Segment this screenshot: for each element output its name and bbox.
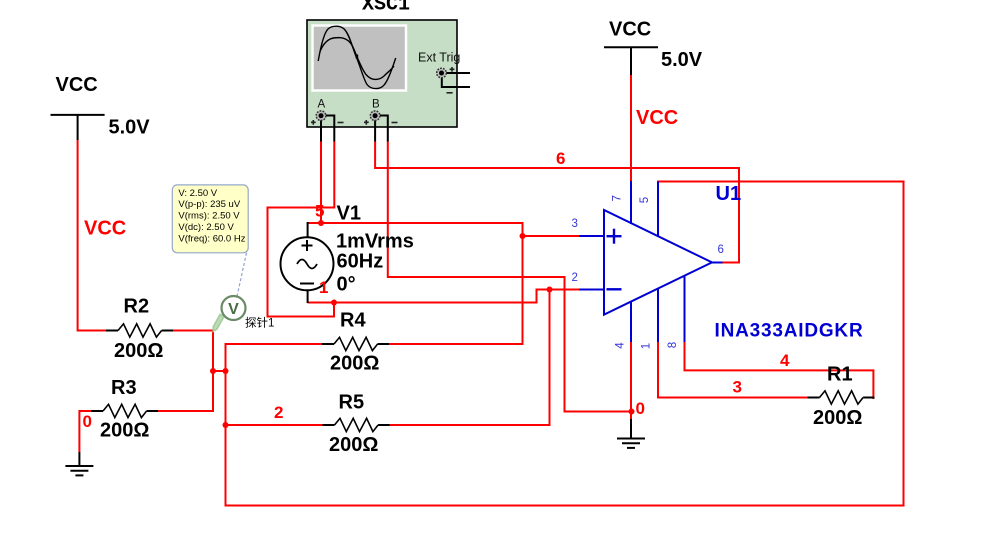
- wire scope B plus stub: [374, 116, 376, 142]
- net label 4: [780, 351, 790, 370]
- wire scope A- loop around V1: [268, 142, 335, 317]
- wire VCC right to pin 7: [630, 75, 632, 182]
- svg-text:V(rms): 2.50 V: V(rms): 2.50 V: [178, 211, 240, 222]
- svg-text:200Ω: 200Ω: [329, 434, 378, 456]
- junction R2R right: [223, 368, 229, 374]
- net label 2: [274, 403, 283, 422]
- pin number 4: [615, 342, 627, 349]
- wire mid rail big loop to pin 5: [226, 182, 904, 506]
- svg-text:3: 3: [572, 218, 578, 230]
- probe circle: [222, 296, 246, 320]
- net label 6: [556, 149, 565, 168]
- resistor R5: [323, 418, 390, 431]
- svg-text:R4: R4: [340, 310, 366, 332]
- wire R5 left branch net 2: [226, 424, 324, 426]
- svg-text:XSC1: XSC1: [362, 0, 410, 17]
- pin number 6: [718, 244, 724, 256]
- V1 value 0 deg: [337, 274, 356, 296]
- svg-text:200Ω: 200Ω: [100, 420, 149, 442]
- net label 1: [319, 278, 328, 297]
- R5 value 200 ohm: [329, 434, 378, 456]
- junction ground right: [629, 409, 635, 415]
- svg-text:0: 0: [636, 399, 645, 418]
- svg-text:V(dc): 2.50 V: V(dc): 2.50 V: [178, 222, 234, 233]
- svg-text:5: 5: [639, 197, 651, 203]
- oscilloscope Ext Trig label: [418, 51, 460, 65]
- wire net 5 V1 plus to R4 right and pin 3: [308, 223, 523, 344]
- svg-text:8: 8: [667, 342, 679, 348]
- wire net 1 V1 minus to pin 2: [308, 290, 580, 303]
- pin number 5: [639, 197, 651, 203]
- svg-text:B: B: [372, 99, 380, 111]
- net label 0 left: [83, 412, 92, 431]
- op-amp pin 2 lead: [579, 289, 604, 291]
- wire scope A plus stub: [320, 116, 322, 142]
- net label 5: [315, 202, 324, 221]
- svg-text:R1: R1: [827, 364, 853, 386]
- ground left: [65, 452, 93, 475]
- svg-text:V1: V1: [337, 203, 361, 225]
- op-amp U1 triangle: [604, 210, 712, 315]
- probe callout line: [237, 253, 247, 297]
- oscilloscope label XSC1: [362, 0, 410, 17]
- svg-text:VCC: VCC: [84, 218, 126, 240]
- R2 reference label: [124, 296, 150, 318]
- wire VCC left rail to R2: [78, 140, 107, 331]
- resistor R1: [808, 391, 875, 404]
- svg-text:3: 3: [733, 378, 742, 397]
- oscilloscope channel A label: [318, 99, 326, 111]
- pin number 7: [612, 195, 624, 201]
- oscilloscope trace A: [318, 26, 396, 88]
- oscilloscope XSC1 body: [307, 20, 457, 127]
- junction A+ net5: [318, 220, 324, 226]
- pin number 1: [641, 343, 653, 349]
- junction R2R left: [210, 368, 216, 374]
- op-amp pin 8 lead: [684, 276, 686, 343]
- op-amp pin 5 lead: [657, 182, 659, 238]
- resistor R4: [322, 337, 389, 350]
- wire ext trig stubs: [442, 73, 470, 87]
- port A connector: [316, 111, 326, 121]
- junction net5 pin3: [520, 233, 526, 239]
- op-amp pin 1 lead: [657, 289, 659, 343]
- R1 reference label: [827, 364, 853, 386]
- pin number 2: [572, 272, 578, 284]
- R4 reference label: [340, 310, 366, 332]
- svg-text:0: 0: [83, 412, 92, 431]
- net VCC right red label: [636, 107, 678, 129]
- R3 reference label: [111, 377, 137, 399]
- R2 value 200 ohm: [114, 340, 163, 362]
- port B connector: [370, 111, 380, 121]
- svg-text:6: 6: [718, 244, 724, 256]
- power VCC right value 5.0V: [661, 49, 703, 71]
- svg-text:60Hz: 60Hz: [337, 251, 384, 273]
- channel B polarity marks: [364, 120, 398, 125]
- wire scope B+ net 6 to pin 6 output: [375, 142, 739, 263]
- svg-text:5: 5: [315, 202, 324, 221]
- svg-text:V: 2.50 V: V: 2.50 V: [178, 188, 217, 199]
- V1 value 1mVrms: [336, 231, 414, 253]
- svg-text:VCC: VCC: [636, 107, 678, 129]
- svg-text:200Ω: 200Ω: [813, 407, 862, 429]
- power VCC right label: [609, 19, 651, 41]
- power VCC left value 5.0V: [109, 117, 151, 139]
- svg-text:2: 2: [572, 272, 578, 284]
- svg-text:V(freq): 60.0 Hz: V(freq): 60.0 Hz: [178, 233, 245, 244]
- svg-text:1: 1: [319, 278, 328, 297]
- R3 value 200 ohm: [100, 420, 149, 442]
- R1 value 200 ohm: [813, 407, 862, 429]
- svg-text:R2: R2: [124, 296, 150, 318]
- svg-text:5.0V: 5.0V: [109, 117, 151, 139]
- wire scope A+ to V1 top (net 5): [320, 142, 322, 224]
- svg-text:7: 7: [612, 195, 624, 201]
- V1 value 60Hz: [337, 251, 384, 273]
- junction net1 pin2: [547, 287, 553, 293]
- svg-text:1: 1: [641, 343, 653, 349]
- op-amp pin 6 lead: [712, 262, 723, 264]
- svg-text:200Ω: 200Ω: [114, 340, 163, 362]
- probe handle: [213, 310, 230, 332]
- wire scope A minus hook: [326, 116, 335, 142]
- resistor R3: [91, 404, 158, 417]
- op-amp pin 3 lead: [579, 235, 604, 237]
- svg-text:VCC: VCC: [56, 74, 98, 96]
- svg-text:V(p-p): 235 uV: V(p-p): 235 uV: [178, 199, 240, 210]
- oscilloscope channel B label: [372, 99, 380, 111]
- pin number 8: [667, 342, 679, 348]
- power VCC right symbol: [604, 47, 658, 75]
- voltage source V1: [281, 222, 334, 303]
- oscilloscope screen: [313, 26, 407, 91]
- svg-text:200Ω: 200Ω: [330, 353, 379, 375]
- svg-text:INA333AIDGKR: INA333AIDGKR: [715, 321, 864, 342]
- channel A polarity marks: [311, 120, 344, 125]
- svg-text:6: 6: [556, 149, 565, 168]
- power VCC left label: [56, 74, 98, 96]
- wire junction cross link: [213, 370, 226, 372]
- svg-text:R5: R5: [339, 392, 365, 414]
- op-amp pin 7 lead: [630, 181, 632, 224]
- probe tooltip box: [172, 185, 248, 253]
- svg-text:1mVrms: 1mVrms: [336, 231, 414, 253]
- svg-text:V: V: [228, 301, 239, 318]
- wire pin 8 net 4 to R1 right: [685, 342, 874, 399]
- port Ext Trig connector: [437, 68, 447, 78]
- U1 reference label: [716, 183, 742, 205]
- ext trig polarity marks: [447, 67, 455, 93]
- svg-text:5.0V: 5.0V: [661, 49, 703, 71]
- svg-text:Ext Trig: Ext Trig: [418, 51, 460, 65]
- svg-text:4: 4: [780, 351, 790, 370]
- wire scope B minus hook: [380, 116, 388, 142]
- wire scope B- to ground junction: [388, 142, 632, 412]
- wire net 5 branch to pin 3: [523, 235, 580, 237]
- wire pin 4 to ground junction: [630, 342, 632, 419]
- ground right: [617, 419, 645, 448]
- V1 reference label: [337, 203, 361, 225]
- op-amp pin 4 lead: [630, 302, 632, 343]
- probe name label: [245, 316, 274, 330]
- svg-text:R3: R3: [111, 377, 137, 399]
- junction R5 left: [223, 422, 229, 428]
- wire R3 left to ground: [79, 411, 91, 452]
- svg-text:2: 2: [274, 403, 283, 422]
- wire pin 1 net 3 to R1 left: [658, 342, 808, 398]
- R5 reference label: [339, 392, 365, 414]
- U1 part number INA333AIDGKR: [715, 321, 864, 342]
- svg-text:4: 4: [615, 342, 627, 349]
- svg-text:VCC: VCC: [609, 19, 651, 41]
- wire net 1 branch to R5 right: [389, 290, 550, 426]
- pin number 3: [572, 218, 578, 230]
- net VCC left red label: [84, 218, 126, 240]
- svg-text:探针1: 探针1: [245, 316, 274, 330]
- R4 value 200 ohm: [330, 353, 379, 375]
- net label 3: [733, 378, 742, 397]
- svg-text:0°: 0°: [337, 274, 356, 296]
- junction V1 minus: [331, 300, 337, 306]
- svg-text:A: A: [318, 99, 326, 111]
- svg-text:U1: U1: [716, 183, 742, 205]
- power VCC left symbol: [51, 115, 105, 140]
- net label 0 right: [636, 399, 645, 418]
- wire R2 right to R3 right junction: [158, 331, 214, 412]
- oscilloscope trace B: [320, 38, 394, 80]
- resistor R2: [106, 324, 173, 337]
